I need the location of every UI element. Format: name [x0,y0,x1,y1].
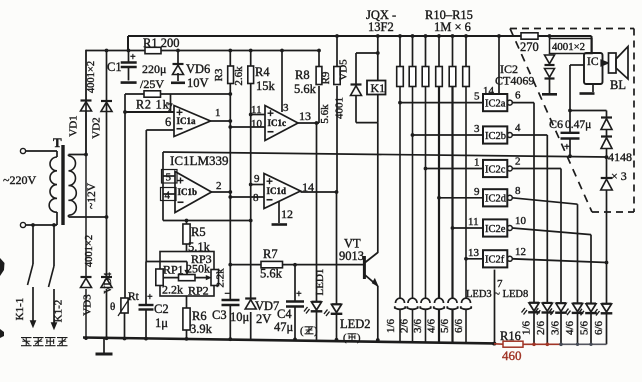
resistor R14 column [452,36,454,67]
wire LED column 4 [577,204,579,302]
node junction pin8 [228,195,232,199]
node junction VD3 bottom bus [84,336,88,340]
wire IC1b inputs [163,175,175,177]
wire LED4 bottom [546,313,548,344]
svg-text:IC2f: IC2f [485,255,505,266]
resistor R3 [228,66,234,84]
node junction C4 top [293,263,297,267]
wire VD5 branch top [356,52,378,54]
resistor R12 [422,67,429,87]
potentiometer RP2 element [179,275,196,281]
resistor R1 [145,47,161,53]
svg-text:+: + [296,289,302,300]
wire LED7 bottom [590,314,592,345]
node junction secondary upper [84,153,88,157]
electrode probe 5/6 [448,298,457,303]
inverter IC2b [483,126,507,143]
capacitor C1 [121,61,137,63]
svg-text:3/6: 3/6 [550,320,562,335]
label pin 4 boxed [161,188,177,201]
svg-text:2V: 2V [256,312,271,326]
svg-text:10μ: 10μ [230,310,250,324]
svg-text:R2 1k: R2 1k [136,98,170,112]
label 4001x2 boxed [550,39,593,54]
wire VD6 column [177,51,179,64]
node junction emitter bottom [376,338,380,342]
resistor R5 [183,224,190,244]
svg-text:270: 270 [520,40,539,54]
svg-text:15k: 15k [256,79,276,93]
wire pin12 ground stub [278,202,280,224]
capacitor C3 [222,299,240,301]
thermistor Rt [121,298,128,313]
wire LED return line [561,343,607,345]
wire secondary lower tap [68,215,70,217]
svg-text:K1: K1 [371,81,386,95]
wire IC1a noninverting input [125,111,174,113]
wire LED8 bottom [606,314,608,345]
node junction Rt bottom [123,337,127,341]
svg-text:5/6: 5/6 [439,318,451,333]
svg-text:5/6: 5/6 [579,320,591,335]
wire diode column bottom [549,79,551,94]
wire RP2 wiper line [163,277,208,279]
wire long reference line [163,152,607,157]
wire LED 6/6 column [606,263,608,304]
svg-text:11: 11 [468,216,479,228]
wire output IC2f [512,259,606,263]
node junction C4 bottom [293,338,297,342]
svg-text:~12V: ~12V [86,182,98,209]
svg-text:VD6: VD6 [186,62,210,76]
wire IC1a inverting input [146,129,174,131]
wire R9 column [336,36,338,67]
wire reference column [250,84,252,299]
LED LED6 [573,302,583,304]
resistor R16 (red annotation) [494,343,503,345]
svg-text:CT4069: CT4069 [495,74,534,88]
svg-text:9013: 9013 [339,249,364,263]
svg-text:10: 10 [515,215,527,227]
wire trigger to diode chain [570,110,607,112]
relay coil K1 [367,81,386,95]
diode supply D2 [545,69,555,78]
svg-text:VD2: VD2 [91,117,103,138]
speaker BL [601,60,609,66]
svg-text:RP2: RP2 [188,284,209,298]
switch K1-2 [52,223,56,227]
wire electrode column 6/6 [465,87,467,299]
svg-text:Rt: Rt [128,291,140,303]
wire electrode 2 bottom [412,310,414,342]
svg-text:4001: 4001 [334,97,346,119]
resistor R10 [397,67,404,87]
node junction C6 top node [568,109,572,113]
svg-text:× 3: × 3 [611,169,627,183]
wire R4 column [250,51,252,67]
svg-text:): ) [357,333,361,344]
node junction R8 top [317,49,321,53]
zener diode VD6 [173,63,184,65]
wire electrode 3 bottom [425,310,427,342]
node junction chain output12 [605,261,609,265]
wire IC1 box left edge [162,152,164,221]
diode supply D1 [549,53,551,56]
op-amp IC1b [175,172,212,213]
node junction column 4 to gate [437,196,441,200]
svg-text:10: 10 [251,118,263,130]
resistor R14 [449,67,456,87]
svg-text:1μ: 1μ [155,316,168,330]
node junction C2 bottom [144,337,148,341]
svg-text:12: 12 [281,207,293,221]
svg-text:(: ( [343,333,347,344]
svg-text:1: 1 [215,107,221,119]
wire R7 line [230,264,261,266]
node junction pin9 [249,183,253,187]
IC music chip [584,53,603,84]
wire second supply bus (after R1) [86,50,145,52]
electrode probe 3/6 [421,298,430,303]
LED LED4 [542,302,552,304]
svg-text:9: 9 [474,186,480,198]
resistor 2.2k right element [211,270,219,286]
node junction output node [228,119,232,123]
resistor R15 [463,67,470,87]
node junction R6 bottom [185,337,189,341]
svg-text:12: 12 [515,246,526,258]
resistor R10 column [399,36,401,67]
wire electrode column 3/6 [425,87,427,299]
svg-text:IC2c: IC2c [485,164,506,175]
resistor R2 [144,91,161,97]
wire IC1a output [211,120,231,122]
svg-text:θ: θ [110,301,115,313]
svg-text:IC1LM339: IC1LM339 [170,153,229,168]
wire output IC2e [512,228,591,235]
svg-text:220μ: 220μ [142,62,166,76]
wire bottom ground bus [83,338,494,344]
svg-text:K1-1: K1-1 [14,298,26,321]
wire LED1 bottom [316,312,318,340]
svg-text:4001×2: 4001×2 [86,61,97,93]
svg-text:R3: R3 [213,68,225,81]
zener diode VD7 [242,298,257,311]
wire top supply bus [128,35,592,37]
node junction LED returns [532,343,536,347]
op-amp IC1a [174,106,211,137]
svg-text:VD7: VD7 [255,299,279,313]
node junction R3 top [228,49,232,53]
LED LED7 [586,302,596,304]
svg-text:2.2k: 2.2k [162,283,183,297]
diode chain 4148 D3 [601,177,613,179]
svg-text:6: 6 [515,90,521,102]
wire LED column 1 [533,103,535,302]
svg-text:BL: BL [610,78,626,92]
op-amp IC1c [265,106,298,141]
svg-text:R16: R16 [500,329,521,343]
svg-text:1/6: 1/6 [521,320,533,335]
inverter IC2c [483,160,507,177]
diode VD5 [351,83,362,85]
wire electrode column 5/6 [451,87,453,299]
wire IC1 box bottom [163,220,251,222]
wire LED5 bottom [560,313,562,344]
LED LED8 [602,303,612,305]
wire output IC2c [512,168,561,170]
svg-text:~220V: ~220V [3,173,36,187]
wire RP2 arm from above [146,261,187,263]
LED LED1 [312,301,322,303]
node junction secondary lower [105,215,109,219]
node junction C3 bottom [228,337,232,341]
svg-text:R9: R9 [320,71,332,84]
svg-text:IC2a: IC2a [485,98,506,109]
svg-text:6: 6 [165,115,171,129]
wire LED3 bottom [533,313,535,345]
wire input to IC2b [413,134,484,136]
svg-text:2.2k: 2.2k [215,268,227,288]
wire LED2/output14 column [336,192,338,304]
svg-text:3/6: 3/6 [412,318,424,333]
svg-text:IC1d: IC1d [267,186,287,196]
dashed boundary bottom [592,211,634,213]
wire ref column down [124,112,126,298]
switch K1-1 [31,223,35,227]
transformer T core [61,145,64,225]
LED LED2 [332,303,342,305]
ground bar diodes [542,93,557,96]
node junction LED1 column top [315,121,319,125]
capacitor C2 [145,262,147,306]
wire VD7 column [250,312,252,339]
svg-text:13: 13 [468,247,480,259]
wire IC ground stub [592,84,594,92]
node junction pin14 top [497,34,501,38]
svg-text:4/6: 4/6 [564,320,576,335]
LED LED5 [556,302,566,304]
svg-text:C3: C3 [212,308,227,322]
wire pin8 stub [230,196,264,198]
wire output IC2b [512,134,547,136]
node junction VD5 top [376,51,380,55]
svg-text:IC1a: IC1a [177,116,197,126]
wire output IC2a [512,102,534,104]
diode chain 4148 D1 [606,111,608,118]
scan artifact left edge [0,258,5,276]
resistor R11 column [412,36,414,67]
svg-text:1: 1 [474,157,480,169]
LED LED3 [529,302,539,304]
node junction C6 bottom [568,154,572,158]
node junction output 14 [335,190,339,194]
resistor R4 [248,66,254,84]
wire electrode column 4/6 [438,87,440,299]
resistor R15 column [465,36,467,67]
node junction LED2 bottom [335,338,339,342]
svg-text:T: T [53,135,62,150]
wire electrode column 1/6 [399,87,401,299]
node junction column 5 to gate [451,226,455,230]
node junction pin11 [249,113,253,117]
wire K1 column [377,36,379,81]
node junction chain / reference line [605,155,609,159]
wire R2 line [125,93,144,95]
wire chain bottom [606,190,608,263]
svg-text:C4: C4 [277,307,292,321]
wire VD2 column [106,51,108,339]
svg-text:6/6: 6/6 [453,318,465,333]
wire electrode 4 bottom [438,310,440,342]
wire input to IC2c [426,168,484,170]
svg-text:3: 3 [283,102,289,114]
svg-text:K1-2: K1-2 [53,300,65,323]
node junction VD6 top [176,49,180,53]
dashed boundary right [633,29,635,213]
svg-text:6/6: 6/6 [593,320,605,335]
inverter IC2f [483,250,507,267]
svg-text:4001×2: 4001×2 [552,41,585,53]
svg-text:10V: 10V [187,76,209,90]
svg-text:9: 9 [254,173,260,185]
node junction 4001 top [548,34,552,38]
svg-text:IC: IC [587,56,599,68]
electrode probe 1/6 [396,298,405,303]
transformer T primary winding [56,151,58,157]
diode VD3 [79,277,93,289]
wire collector column [377,123,379,253]
svg-text:4148: 4148 [608,150,632,164]
dashed boundary top [510,28,634,30]
diode chain 4148 D2 [606,130,608,137]
node junction ref column [123,110,127,114]
node junction VD4 bottom bus [105,336,109,340]
svg-text:14: 14 [483,85,495,97]
label to-heater (Chinese) [21,338,32,346]
inverter IC2e [483,219,507,236]
wire LED column 5 [590,235,592,303]
dashed boundary diagonal [510,29,592,213]
svg-text:+: + [564,142,570,153]
wire pin7 stub [170,94,172,112]
wire electrode 5 bottom [451,310,453,343]
svg-text:+: + [130,52,136,63]
wire electrode column 2/6 [412,87,414,299]
svg-text:LED1: LED1 [314,269,326,296]
svg-text:VD3: VD3 [82,294,94,316]
wire secondary upper tap [68,155,70,157]
wire LED1 column [316,123,318,301]
node junction pin10 [228,125,232,129]
electrode probe 4/6 [435,298,444,303]
node junction R9 top [335,34,339,38]
node junction VD2 top [105,49,109,53]
resistor R13 column [438,36,440,67]
svg-text:5.6k: 5.6k [260,267,283,281]
svg-text:5.6k: 5.6k [319,104,331,124]
label pin 5 boxed [162,170,178,184]
svg-text:R4: R4 [255,65,270,79]
svg-text:8: 8 [253,192,259,204]
resistor R7 [261,261,283,267]
svg-text:IC2b: IC2b [485,131,506,142]
ground symbol IC1d [272,223,288,226]
svg-text:0.47μ: 0.47μ [565,119,591,131]
svg-text:4/6: 4/6 [426,318,438,333]
svg-text:3.9k: 3.9k [190,322,213,336]
ground symbol main [103,338,105,353]
svg-text:R1 200: R1 200 [143,36,179,50]
svg-text:C2: C2 [154,302,169,316]
node junction R5 top [185,219,189,223]
resistor R12 column [425,36,427,67]
svg-text:VD1: VD1 [68,115,80,136]
svg-text:2: 2 [515,156,521,168]
svg-text:250k: 250k [186,262,210,276]
svg-text:3: 3 [474,123,480,135]
svg-text:IC1c: IC1c [268,118,287,128]
op-amp IC1d [264,174,301,209]
wire VD1 column [85,100,87,155]
svg-text:R7: R7 [263,247,278,261]
node junction column 6 to gate [464,257,468,261]
wire IC1b output [212,191,231,193]
node junction column 3 to gate [424,167,428,171]
svg-text:IC2d: IC2d [485,194,507,205]
node junction pin3 top [280,49,284,53]
svg-text:1M × 6: 1M × 6 [434,20,471,34]
svg-text:2.6k: 2.6k [233,66,245,86]
wire electrode 1 bottom [399,310,401,341]
wire R5 leads [186,221,188,225]
node junction output node 2 [228,190,232,194]
wire input to IC2d [439,197,483,199]
transformer T secondary winding [69,156,77,215]
wire LED2 bottom [336,314,338,340]
svg-text:4: 4 [165,190,171,202]
node junction R2 end [228,92,232,96]
node junction C1 top [127,49,131,53]
node junction pin7 bus [493,342,497,346]
wire AC lower [26,224,57,226]
wire output node column [229,84,231,300]
wire chain mid [606,149,608,178]
node junction R4 top [249,49,253,53]
svg-text:5.6k: 5.6k [294,82,317,96]
resistor 270 [521,33,538,39]
svg-text:4001×2: 4001×2 [84,235,95,267]
svg-text:460: 460 [502,348,522,363]
wire output IC2d [512,198,577,204]
wire LED column 2 [546,135,548,302]
svg-text:13: 13 [299,109,311,123]
wire pin10 stub [230,126,265,128]
svg-text:VD5: VD5 [338,59,350,81]
svg-text:R5: R5 [191,225,206,239]
svg-text:4: 4 [515,122,521,134]
node junction K1 top [376,34,380,38]
potentiometer network box RP3 [160,252,214,297]
wire pin11 stub [251,114,265,116]
wire input to IC2f [466,258,483,260]
svg-text:2: 2 [216,180,222,192]
electrode probe 2/6 [408,298,417,303]
node junction ref bottom [249,219,253,223]
wire IC trigger pin [570,64,584,66]
svg-text:/25V: /25V [140,77,164,91]
diode VD4 [100,277,114,289]
